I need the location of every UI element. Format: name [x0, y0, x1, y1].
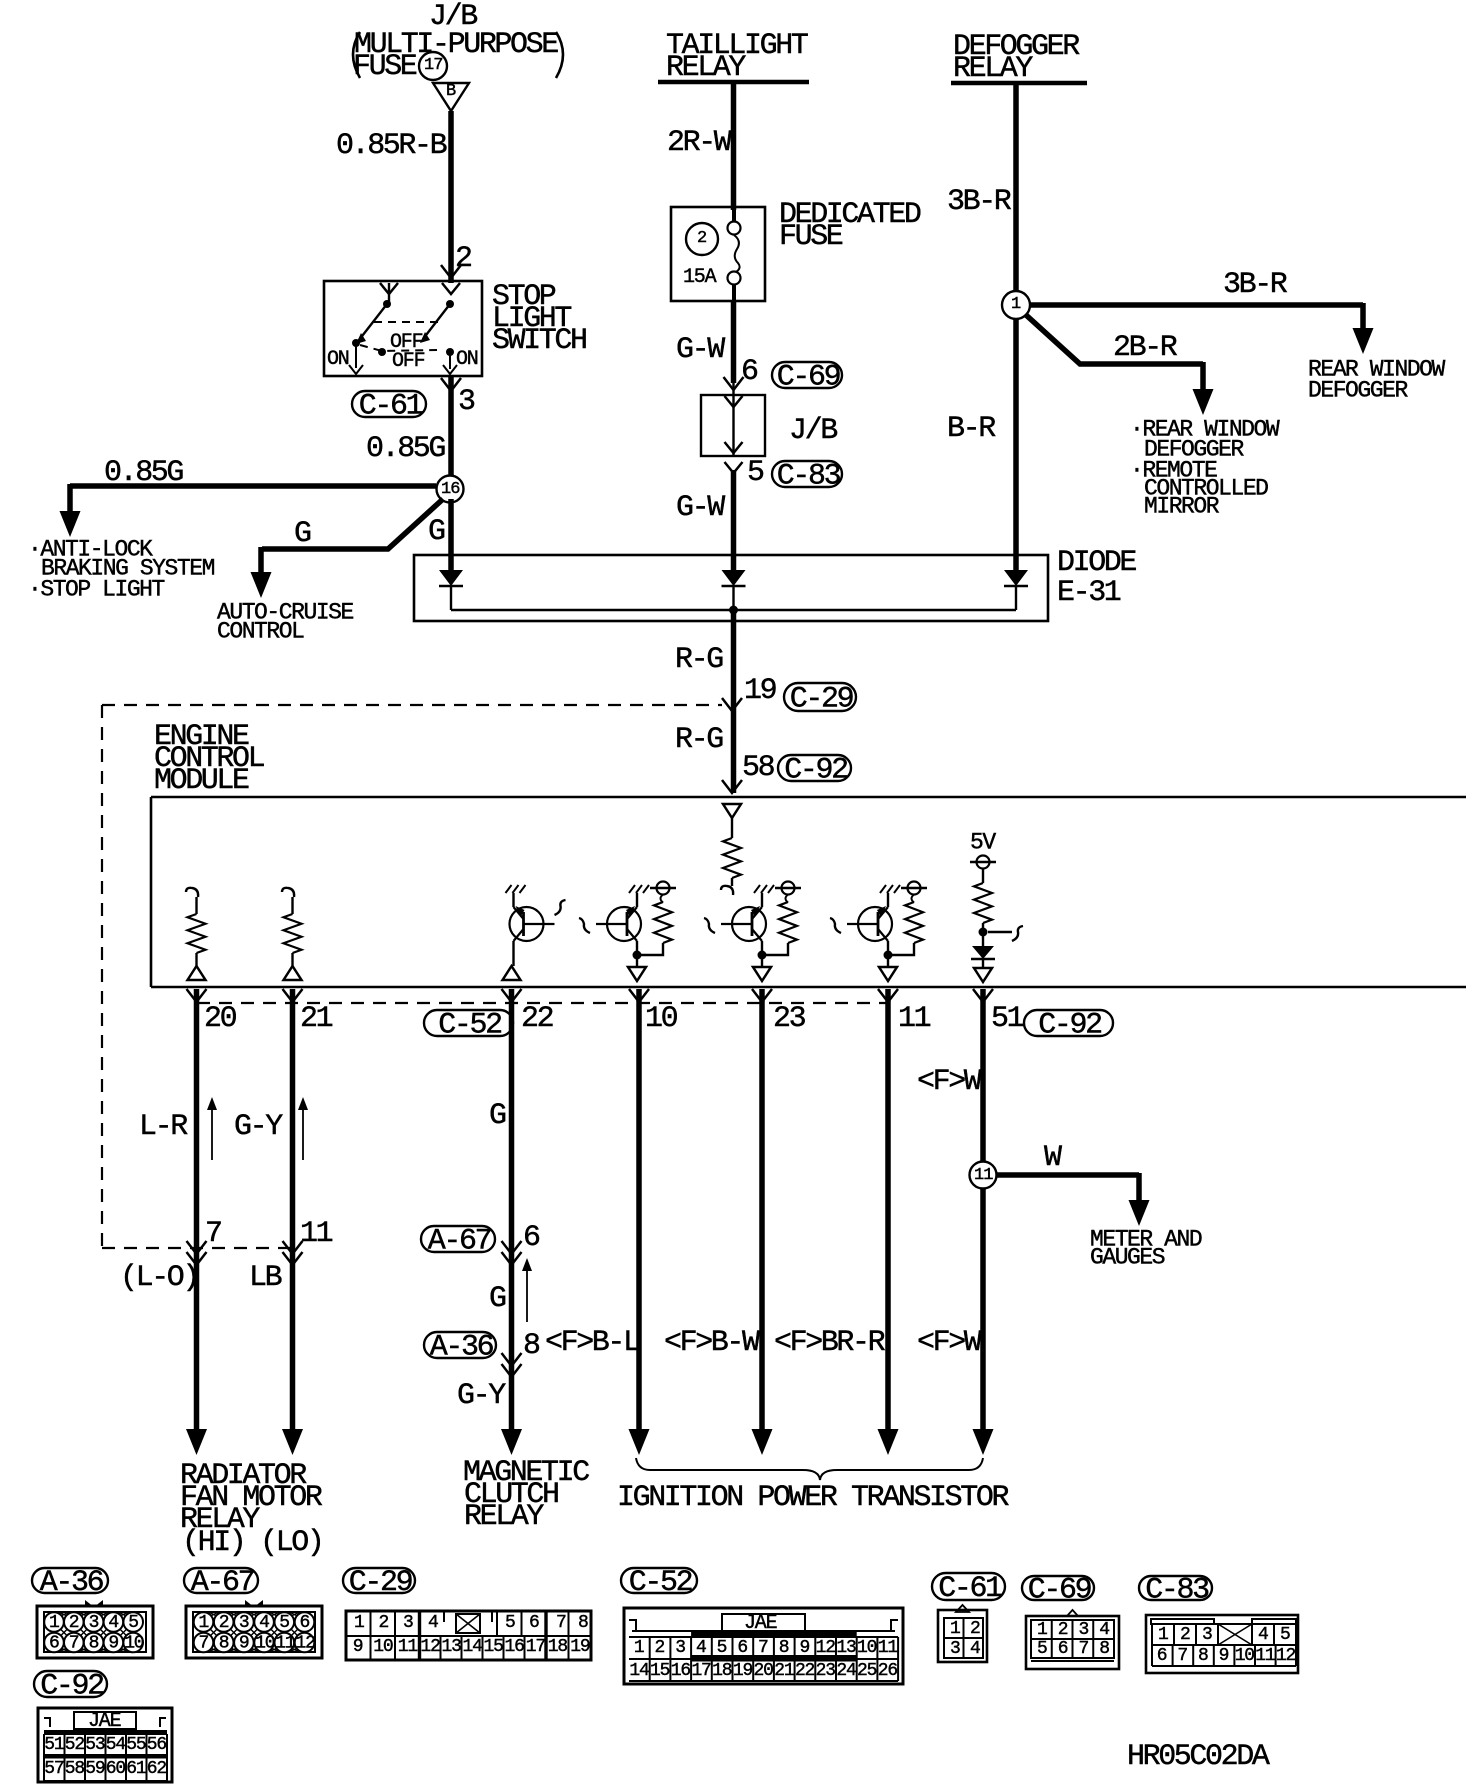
svg-text:55: 55	[126, 1735, 146, 1755]
svg-text:G: G	[294, 517, 311, 551]
svg-text:C-92: C-92	[784, 754, 847, 788]
svg-text:<F>B-L: <F>B-L	[545, 1326, 640, 1360]
svg-text:15A: 15A	[683, 266, 717, 289]
svg-text:G: G	[428, 515, 445, 549]
ECM ground at pin 11 transistor	[880, 885, 886, 893]
svg-text:12: 12	[816, 1638, 836, 1658]
wire G-W from fuse to junction block	[731, 301, 737, 383]
svg-text:13: 13	[442, 1637, 462, 1657]
ECM internal resistor at pin 20	[186, 888, 206, 980]
destination magnetic clutch relay	[463, 1456, 589, 1534]
ECM series resistor from pin 58	[721, 804, 741, 895]
svg-text:(L-O): (L-O)	[120, 1261, 198, 1295]
svg-text:8: 8	[523, 1329, 540, 1363]
wire W branch to meter and gauges	[996, 1173, 1150, 1226]
destination auto-cruise control	[217, 600, 354, 645]
svg-text:4: 4	[259, 1613, 269, 1633]
ECM transistor at pin 11	[830, 893, 892, 967]
connector C-61 pinout	[938, 1605, 987, 1662]
svg-text:5: 5	[505, 1613, 515, 1633]
svg-text:<F>BR-R: <F>BR-R	[774, 1326, 886, 1360]
svg-text:14: 14	[629, 1661, 649, 1681]
ECM pull-up resistor at pin 11	[892, 882, 927, 956]
svg-text:G-Y: G-Y	[234, 1110, 283, 1144]
svg-text:10: 10	[645, 1002, 678, 1036]
svg-text:SWITCH: SWITCH	[492, 324, 586, 358]
connector C-52 label at pins	[424, 1010, 513, 1036]
svg-text:5: 5	[279, 1613, 289, 1633]
svg-text:5: 5	[717, 1638, 727, 1658]
fuse number 2 circled	[686, 223, 718, 255]
connector C-83 pinout	[1146, 1615, 1298, 1673]
svg-text:4: 4	[696, 1638, 706, 1658]
fuse element symbol	[728, 207, 741, 301]
svg-text:DEFOGGER: DEFOGGER	[1308, 378, 1408, 404]
wire B-R from node 1 to diode	[1013, 319, 1019, 572]
svg-text:G: G	[489, 1282, 506, 1316]
svg-text:12: 12	[421, 1637, 441, 1657]
fuse number 17 circled	[419, 52, 447, 80]
svg-text:8: 8	[1198, 1646, 1208, 1666]
pin 58 connector C-92	[722, 751, 775, 793]
svg-text:19: 19	[744, 674, 776, 708]
svg-text:21: 21	[774, 1661, 794, 1681]
svg-text:54: 54	[106, 1735, 126, 1755]
wire L-R from pin 20 to radiator fan motor relay	[186, 989, 207, 1455]
svg-text:G-W: G-W	[676, 491, 725, 525]
wire 0.85G from switch to node 16	[448, 376, 454, 478]
svg-text:16: 16	[671, 1661, 691, 1681]
destination anti-lock braking system / stop light	[28, 537, 215, 603]
switch right pole	[420, 283, 460, 374]
svg-text:C-69: C-69	[777, 361, 840, 395]
svg-text:JAE: JAE	[88, 1710, 121, 1733]
svg-text:2: 2	[697, 229, 706, 248]
svg-text:CONTROL: CONTROL	[217, 619, 304, 645]
svg-text:1: 1	[1037, 1620, 1047, 1640]
ECM zener diode at pin 51	[971, 946, 995, 968]
svg-text:13: 13	[836, 1638, 856, 1658]
wire 3B-R branch to rear window defogger	[1030, 303, 1374, 354]
svg-text:1: 1	[950, 1619, 960, 1639]
svg-text:2: 2	[69, 1613, 79, 1633]
svg-text:59: 59	[85, 1759, 105, 1779]
connector C-92 label	[34, 1671, 107, 1697]
engine control module dashed boundary	[102, 705, 722, 1248]
svg-text:C-61: C-61	[359, 390, 423, 424]
svg-text:2R-W: 2R-W	[667, 126, 732, 160]
ignition power transistor brace	[636, 1458, 983, 1480]
svg-text:21: 21	[300, 1002, 333, 1036]
svg-text:MODULE: MODULE	[154, 764, 249, 798]
svg-text:4: 4	[970, 1639, 980, 1659]
ECM pull-up resistor at pin 10	[641, 882, 676, 956]
svg-text:3: 3	[89, 1613, 99, 1633]
svg-text:RELAY: RELAY	[464, 1500, 544, 1534]
svg-text:C-29: C-29	[790, 683, 853, 717]
ECM output triangle pin 51	[974, 968, 992, 982]
connector C-92 pinout	[38, 1708, 172, 1782]
svg-text:17: 17	[526, 1637, 546, 1657]
svg-text:A-67: A-67	[191, 1566, 254, 1600]
wire through junction block	[725, 383, 743, 456]
junction dot pin 23	[758, 951, 767, 960]
svg-text:16: 16	[441, 480, 460, 499]
svg-text:6: 6	[737, 1638, 747, 1658]
connector C-52 pinout	[624, 1608, 903, 1684]
svg-text:C-61: C-61	[938, 1572, 1002, 1606]
connector C-29 pinout	[346, 1611, 591, 1660]
svg-text:8: 8	[578, 1613, 588, 1633]
svg-text:LB: LB	[249, 1261, 282, 1295]
svg-text:16: 16	[505, 1637, 525, 1657]
svg-text:12: 12	[1276, 1646, 1296, 1666]
svg-text:62: 62	[147, 1759, 167, 1779]
svg-text:3: 3	[1202, 1625, 1212, 1645]
svg-text:3: 3	[1079, 1620, 1089, 1640]
svg-text:53: 53	[85, 1735, 105, 1755]
svg-text:·STOP LIGHT: ·STOP LIGHT	[28, 577, 165, 603]
engine control module internal box	[151, 797, 1466, 987]
svg-text:23: 23	[816, 1661, 836, 1681]
svg-text:ON: ON	[327, 348, 349, 371]
svg-text:5: 5	[1037, 1639, 1047, 1659]
wire 3B-R from defogger relay to node 1	[1013, 83, 1019, 292]
svg-text:6: 6	[529, 1613, 539, 1633]
svg-text:9: 9	[353, 1637, 363, 1657]
svg-text:11: 11	[398, 1637, 418, 1657]
svg-text:0.85G: 0.85G	[104, 456, 183, 490]
svg-text:15: 15	[484, 1637, 504, 1657]
svg-text:7: 7	[1079, 1639, 1089, 1659]
svg-text:6: 6	[741, 355, 758, 389]
svg-text:C-52: C-52	[438, 1009, 501, 1043]
connector C-29 in-line label	[784, 683, 856, 711]
svg-text:FUSE: FUSE	[353, 50, 417, 84]
wire from node 16 down to diode	[448, 499, 454, 572]
diode common bus wire	[451, 609, 1016, 612]
svg-text:2B-R: 2B-R	[1113, 331, 1178, 365]
ECM transistor at pin 10	[579, 893, 641, 967]
svg-text:G-Y: G-Y	[457, 1379, 506, 1413]
defogger relay bar	[951, 81, 1087, 86]
svg-text:1: 1	[634, 1638, 644, 1658]
svg-text:R-G: R-G	[675, 723, 723, 757]
svg-text:9: 9	[799, 1638, 809, 1658]
svg-text:1: 1	[49, 1613, 59, 1633]
dedicated fuse label	[779, 198, 921, 254]
svg-text:<F>B-W: <F>B-W	[664, 1326, 760, 1360]
svg-text:MIRROR: MIRROR	[1144, 494, 1220, 520]
svg-text:9: 9	[1219, 1646, 1229, 1666]
svg-text:DIODE: DIODE	[1057, 546, 1136, 580]
ECM ground at pin 22 transistor	[506, 885, 512, 893]
svg-text:14: 14	[463, 1637, 483, 1657]
pin 19 connector C-29	[722, 674, 776, 711]
svg-text:18: 18	[712, 1661, 732, 1681]
diode 2 (center)	[722, 570, 746, 610]
svg-text:7: 7	[199, 1634, 209, 1654]
wire G from pin 22 to magnetic clutch relay	[501, 989, 522, 1455]
svg-text:60: 60	[106, 1759, 126, 1779]
svg-text:HR05C02DA: HR05C02DA	[1127, 1740, 1270, 1774]
ECM pull-up resistor at pin 23	[766, 882, 801, 956]
connector C-69 in-line label	[772, 362, 842, 388]
svg-text:L-R: L-R	[139, 1110, 188, 1144]
wire G branch to auto-cruise control	[251, 499, 444, 598]
connector A-36 pinout	[37, 1600, 153, 1658]
svg-text:10: 10	[255, 1634, 275, 1654]
ECM internal wire pin 51	[982, 923, 984, 946]
svg-text:2: 2	[1180, 1625, 1190, 1645]
svg-text:8: 8	[89, 1634, 99, 1654]
destination meter and gauges	[1090, 1227, 1202, 1271]
svg-text:ON: ON	[456, 348, 478, 371]
connector A-36 label	[32, 1568, 108, 1593]
svg-text:3: 3	[675, 1638, 685, 1658]
connector C-52 label	[621, 1568, 697, 1593]
destination rear window defogger / remote controlled mirror	[1130, 417, 1280, 520]
connector C-92 label at pins	[1024, 1010, 1113, 1036]
svg-text:9: 9	[239, 1634, 249, 1654]
svg-text:0.85R-B: 0.85R-B	[336, 129, 447, 163]
svg-text:IGNITION POWER TRANSISTOR: IGNITION POWER TRANSISTOR	[617, 1481, 1009, 1515]
svg-text:7: 7	[556, 1613, 566, 1633]
svg-text:E-31: E-31	[1057, 576, 1121, 610]
connector C-92 in-line label	[778, 755, 851, 781]
stop light switch label	[492, 280, 586, 358]
svg-text:20: 20	[204, 1002, 237, 1036]
svg-text:J/B: J/B	[789, 414, 837, 448]
svg-text:3B-R: 3B-R	[1223, 268, 1288, 302]
svg-text:A-67: A-67	[428, 1225, 491, 1259]
svg-text:56: 56	[147, 1735, 167, 1755]
diode assembly E-31 box	[414, 555, 1048, 621]
ECM output triangle pin 11	[879, 967, 897, 981]
svg-text:4: 4	[108, 1613, 118, 1633]
connector C-29 label	[343, 1568, 415, 1593]
svg-text:G: G	[489, 1099, 506, 1133]
svg-text:4: 4	[1099, 1620, 1109, 1640]
connector C-69 pinout	[1026, 1610, 1119, 1669]
svg-text:20: 20	[754, 1661, 774, 1681]
svg-text:2: 2	[1058, 1620, 1068, 1640]
ECM pin chevrons at bottom edge	[187, 989, 994, 1002]
svg-text:OFF: OFF	[392, 350, 425, 373]
svg-text:C-92: C-92	[40, 1670, 103, 1704]
diode 3 (right)	[1004, 570, 1028, 610]
svg-text:G-W: G-W	[676, 333, 725, 367]
svg-text:51: 51	[44, 1735, 64, 1755]
defogger relay label	[953, 30, 1080, 86]
svg-text:11: 11	[1255, 1646, 1275, 1666]
junction dot pin 51	[979, 928, 988, 937]
pin 5 connector C-83	[725, 456, 765, 490]
svg-text:22: 22	[521, 1002, 553, 1036]
node 1 splice circle	[1002, 291, 1030, 319]
svg-text:25: 25	[857, 1661, 877, 1681]
svg-text:<F>W: <F>W	[917, 1326, 982, 1360]
svg-text:12: 12	[296, 1634, 316, 1654]
svg-text:C-83: C-83	[777, 460, 841, 494]
svg-text:57: 57	[44, 1759, 64, 1779]
connector C-69 label	[1022, 1576, 1094, 1600]
svg-text:10: 10	[1235, 1646, 1255, 1666]
svg-text:6: 6	[49, 1634, 59, 1654]
svg-text:C-69: C-69	[1028, 1574, 1091, 1608]
svg-text:15: 15	[650, 1661, 670, 1681]
svg-text:7: 7	[1177, 1646, 1187, 1666]
switch left pole	[349, 283, 398, 374]
node 11 splice circle	[970, 1162, 997, 1189]
svg-text:4: 4	[428, 1613, 438, 1633]
ECM ground at pin 23 transistor	[754, 885, 760, 893]
svg-text:23: 23	[773, 1002, 806, 1036]
taillight relay label	[666, 29, 808, 85]
connector C-61 in-line label	[352, 391, 426, 417]
ECM 5V supply at pin 51	[970, 830, 996, 884]
svg-text:R-G: R-G	[675, 643, 723, 677]
svg-text:58: 58	[742, 751, 775, 785]
svg-text:4: 4	[1258, 1625, 1268, 1645]
wire 2R-W from taillight relay to dedicated fuse	[731, 82, 737, 210]
svg-text:<F>W: <F>W	[917, 1065, 982, 1099]
svg-text:5: 5	[747, 456, 764, 490]
taillight relay bar	[658, 80, 809, 85]
pin 7 crossing	[187, 1217, 222, 1265]
svg-text:2: 2	[219, 1613, 229, 1633]
svg-text:11: 11	[300, 1217, 333, 1251]
wire <F>B-L from pin 10	[629, 989, 650, 1455]
svg-text:1: 1	[1158, 1625, 1168, 1645]
svg-text:8: 8	[1099, 1639, 1109, 1659]
ECM transistor at pin 22	[503, 893, 566, 980]
svg-text:5: 5	[128, 1613, 138, 1633]
svg-text:3: 3	[950, 1639, 960, 1659]
connector A-67 label on wire 22	[421, 1226, 495, 1252]
svg-text:GAUGES: GAUGES	[1090, 1245, 1165, 1271]
diode E-31 label	[1057, 546, 1136, 610]
flow arrow wire 22	[522, 1258, 532, 1322]
wire 0.85R-B from J/B to stop light switch	[448, 111, 454, 283]
connector A-67 pinout	[186, 1600, 322, 1658]
ECM internal resistor at pin 21	[282, 888, 302, 980]
wire <F>B-W from pin 23	[752, 989, 773, 1455]
flow arrow wire 20	[207, 1097, 217, 1160]
svg-text:2: 2	[379, 1613, 389, 1633]
svg-text:C-29: C-29	[349, 1566, 412, 1600]
svg-text:17: 17	[424, 56, 442, 75]
svg-text:7: 7	[69, 1634, 79, 1654]
svg-text:58: 58	[65, 1759, 85, 1779]
pin 8 crossing A-36	[502, 1329, 541, 1377]
connector C-83 label	[1139, 1576, 1212, 1600]
junction dot pin 10	[633, 951, 642, 960]
svg-text:W: W	[1044, 1141, 1062, 1175]
switch position labels ON OFF	[327, 331, 478, 373]
ECM ground at pin 10 transistor	[629, 885, 635, 893]
svg-text:7: 7	[205, 1217, 221, 1251]
svg-text:18: 18	[548, 1637, 568, 1657]
wire <F>W from pin 51	[973, 989, 994, 1455]
destination radiator fan motor relay	[180, 1459, 323, 1560]
svg-text:C-92: C-92	[1038, 1009, 1101, 1043]
svg-text:6: 6	[300, 1613, 310, 1633]
ECM output triangle pin 10	[628, 967, 646, 981]
svg-text:6: 6	[1058, 1639, 1068, 1659]
stop light switch box	[324, 281, 482, 376]
svg-text:17: 17	[691, 1661, 711, 1681]
wire R-G from diode to ECM pin 58	[731, 610, 737, 793]
wire 2B-R branch	[1026, 315, 1214, 415]
svg-text:19: 19	[570, 1637, 590, 1657]
svg-text:0.85G: 0.85G	[366, 432, 445, 466]
wire <F>BR-R from pin 11	[878, 989, 899, 1455]
svg-text:10: 10	[373, 1637, 393, 1657]
wire G-Y from pin 21 to radiator fan motor relay	[282, 989, 303, 1455]
svg-text:5V: 5V	[970, 830, 996, 856]
pin 11 crossing	[283, 1217, 333, 1265]
engine control module label	[154, 720, 265, 798]
switch linkage dashed	[360, 322, 443, 356]
power source label J/B (MULTI-PURPOSE FUSE 17)	[353, 0, 563, 84]
svg-text:(HI) (LO): (HI) (LO)	[182, 1526, 322, 1560]
svg-text:11: 11	[974, 1166, 993, 1185]
junction at diode output	[729, 606, 738, 615]
svg-text:10: 10	[124, 1634, 144, 1654]
svg-text:C-52: C-52	[629, 1566, 692, 1600]
junction block J/B box	[701, 395, 765, 456]
svg-text:8: 8	[779, 1638, 789, 1658]
pin 6 connector C-69	[724, 355, 759, 390]
flow arrow wire 21	[298, 1097, 308, 1160]
svg-text:B-R: B-R	[947, 412, 996, 446]
connector C-61 label	[932, 1573, 1005, 1600]
junction dot pin 11	[884, 951, 893, 960]
svg-text:1: 1	[1011, 295, 1021, 314]
svg-text:51: 51	[991, 1002, 1024, 1036]
svg-text:9: 9	[108, 1634, 118, 1654]
svg-text:19: 19	[733, 1661, 753, 1681]
svg-text:FUSE: FUSE	[779, 220, 843, 254]
connector triangle B	[433, 82, 469, 111]
destination rear window defogger	[1308, 357, 1446, 404]
svg-text:11: 11	[878, 1638, 898, 1658]
svg-text:10: 10	[857, 1638, 877, 1658]
svg-text:6: 6	[523, 1221, 540, 1255]
svg-text:A-36: A-36	[430, 1331, 494, 1365]
svg-text:6: 6	[1157, 1646, 1167, 1666]
diode 1 (left)	[439, 570, 463, 610]
svg-text:1: 1	[354, 1613, 364, 1633]
svg-text:C-83: C-83	[1145, 1574, 1209, 1608]
svg-text:11: 11	[275, 1634, 295, 1654]
svg-text:A-36: A-36	[40, 1566, 104, 1600]
wire 0.85G branch to anti-lock braking system	[60, 484, 437, 537]
svg-text:B: B	[446, 82, 456, 101]
svg-text:11: 11	[898, 1002, 931, 1036]
svg-text:22: 22	[795, 1661, 815, 1681]
connector A-36 label on wire 22	[424, 1332, 496, 1358]
wire G-W from junction block to diode	[731, 470, 737, 572]
pin 6 crossing A-67	[502, 1221, 541, 1265]
connector C-52 dashed line	[197, 1002, 888, 1004]
svg-text:8: 8	[219, 1634, 229, 1654]
ECM resistor at pin 51	[974, 883, 992, 923]
svg-text:52: 52	[65, 1735, 85, 1755]
svg-text:3: 3	[403, 1613, 413, 1633]
svg-text:3: 3	[458, 385, 475, 419]
